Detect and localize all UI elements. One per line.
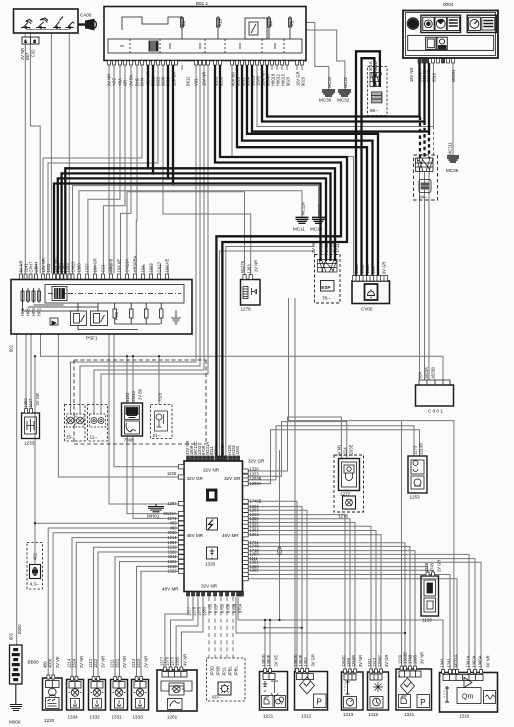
svg-text:HRSPBA: HRSPBA <box>133 255 138 272</box>
svg-text:8705: 8705 <box>208 603 213 613</box>
svg-text:16V VE: 16V VE <box>165 258 170 272</box>
svg-text:452: 452 <box>33 552 38 560</box>
svg-text:802: 802 <box>9 344 14 352</box>
svg-text:V31: V31 <box>194 78 199 86</box>
svg-text:1320: 1320 <box>205 562 216 567</box>
svg-text:9004: 9004 <box>214 445 219 455</box>
svg-text:1263: 1263 <box>247 264 252 274</box>
svg-text:1203A: 1203A <box>250 481 262 486</box>
svg-text:8704: 8704 <box>238 603 243 613</box>
svg-text:2V BA: 2V BA <box>129 74 134 86</box>
svg-text:16A: 16A <box>418 371 423 379</box>
svg-text:1745: 1745 <box>430 562 435 572</box>
svg-text:MC10: MC10 <box>310 227 323 232</box>
svg-text:1127: 1127 <box>28 398 33 408</box>
svg-text:MC11: MC11 <box>293 227 305 232</box>
svg-text:1224: 1224 <box>343 447 348 457</box>
svg-text:1115: 1115 <box>369 712 379 717</box>
svg-text:2V NR: 2V NR <box>144 656 149 668</box>
svg-text:MC10: MC10 <box>317 204 322 216</box>
svg-text:F15: F15 <box>218 18 223 26</box>
svg-text:C13: C13 <box>101 264 106 272</box>
svg-text:84--: 84-- <box>419 195 428 200</box>
svg-text:9020: 9020 <box>286 76 291 86</box>
svg-text:HF2: HF2 <box>37 308 42 316</box>
svg-text:0004: 0004 <box>443 2 454 7</box>
svg-text:1365: 1365 <box>250 568 260 573</box>
svg-text:3V GR: 3V GR <box>384 655 389 667</box>
svg-text:JPBL: JPBL <box>234 665 239 676</box>
svg-text:8706: 8706 <box>226 603 231 613</box>
svg-text:P: P <box>420 698 425 707</box>
svg-text:PTB: PTB <box>114 312 119 320</box>
svg-text:JP3D: JP3D <box>210 666 215 676</box>
svg-text:8708: 8708 <box>232 603 237 613</box>
svg-text:48V MR: 48V MR <box>187 533 204 538</box>
svg-text:1380: 1380 <box>77 263 82 273</box>
svg-text:1203E: 1203E <box>349 444 354 456</box>
svg-text:1324: 1324 <box>72 658 77 668</box>
svg-text:2V NR: 2V NR <box>101 656 106 668</box>
svg-text:M000: M000 <box>9 720 21 725</box>
svg-text:MC32: MC32 <box>343 76 348 88</box>
svg-text:1233: 1233 <box>24 441 35 446</box>
svg-text:18V NR: 18V NR <box>409 68 414 82</box>
svg-text:JPBL: JPBL <box>228 665 233 676</box>
svg-text:MH01: MH01 <box>147 514 160 519</box>
svg-text:+CC: +CC <box>112 78 117 86</box>
svg-text:5010: 5010 <box>432 72 437 82</box>
svg-text:MC11A: MC11A <box>301 202 306 216</box>
svg-text:CA13: CA13 <box>157 262 162 273</box>
svg-text:GR: GR <box>123 80 128 86</box>
svg-text:803: 803 <box>9 632 14 640</box>
svg-text:1741: 1741 <box>447 658 452 668</box>
svg-text:1T11: 1T11 <box>335 243 340 253</box>
svg-text:5008: 5008 <box>166 76 171 86</box>
svg-text:2V NR: 2V NR <box>79 656 84 668</box>
svg-text:1322: 1322 <box>93 658 98 668</box>
svg-text:1310: 1310 <box>459 714 470 719</box>
svg-text:M131A: M131A <box>454 654 459 667</box>
svg-text:UBH4: UBH4 <box>34 261 39 273</box>
svg-text:P: P <box>317 698 322 707</box>
svg-text:1313: 1313 <box>343 712 354 717</box>
svg-text:1380: 1380 <box>202 606 207 616</box>
svg-text:1321: 1321 <box>404 712 415 717</box>
svg-text:2V NR: 2V NR <box>122 656 127 668</box>
svg-text:1277: 1277 <box>340 492 351 497</box>
svg-text:2V NR: 2V NR <box>311 241 316 253</box>
svg-text:2V VE: 2V VE <box>55 656 60 668</box>
svg-text:ESP: ESP <box>321 285 330 290</box>
svg-text:32V GR: 32V GR <box>248 459 265 464</box>
svg-text:M0004: M0004 <box>451 69 456 82</box>
svg-text:78--: 78-- <box>322 296 331 301</box>
svg-text:32V NR: 32V NR <box>203 468 220 473</box>
svg-text:1380: 1380 <box>175 656 180 666</box>
svg-text:1203: 1203 <box>65 263 70 273</box>
svg-text:48V MR: 48V MR <box>222 533 239 538</box>
svg-text:1603: 1603 <box>149 263 154 273</box>
svg-text:MC30: MC30 <box>327 76 332 88</box>
svg-text:1611: 1611 <box>360 264 365 274</box>
svg-text:B67: B67 <box>25 52 30 60</box>
svg-text:CA00: CA00 <box>80 13 92 18</box>
svg-text:4000: 4000 <box>48 658 53 668</box>
svg-text:1221: 1221 <box>263 714 274 719</box>
svg-text:1334: 1334 <box>68 715 79 720</box>
svg-text:C00: C00 <box>31 49 36 57</box>
svg-text:8702: 8702 <box>220 603 225 613</box>
svg-text:CV00: CV00 <box>361 307 373 312</box>
svg-text:21--: 21-- <box>153 433 162 438</box>
svg-text:7320: 7320 <box>158 392 163 402</box>
svg-text:1603B: 1603B <box>431 367 436 379</box>
svg-text:3V NR: 3V NR <box>420 652 425 664</box>
svg-text:6V NR: 6V NR <box>486 655 491 667</box>
svg-text:1380E: 1380E <box>266 654 271 666</box>
svg-text:F5: F5 <box>290 20 295 26</box>
svg-text:4.3--: 4.3-- <box>30 582 40 587</box>
svg-text:16A: 16A <box>141 265 146 273</box>
svg-text:JP0B: JP0B <box>216 666 221 676</box>
svg-text:1356C: 1356C <box>377 655 382 667</box>
svg-text:1323: 1323 <box>167 569 177 574</box>
svg-text:1387: 1387 <box>167 501 177 506</box>
svg-text:9025: 9025 <box>301 76 306 86</box>
svg-text:2V M1: 2V M1 <box>337 444 342 457</box>
svg-text:1011: 1011 <box>46 263 51 273</box>
svg-text:2V NR: 2V NR <box>254 260 259 272</box>
svg-text:1610: 1610 <box>365 264 370 274</box>
svg-text:CM13: CM13 <box>131 390 136 402</box>
svg-text:1220: 1220 <box>44 718 55 723</box>
svg-text:1603A: 1603A <box>424 367 429 379</box>
svg-text:4V NR: 4V NR <box>183 654 188 666</box>
svg-text:3V NR: 3V NR <box>358 655 363 667</box>
svg-text:11--: 11-- <box>90 435 98 440</box>
svg-text:2T15: 2T15 <box>330 242 335 252</box>
svg-text:1262: 1262 <box>235 445 240 455</box>
svg-text:PSF1: PSF1 <box>86 336 98 341</box>
svg-text:BB00: BB00 <box>28 660 40 665</box>
svg-text:2V GR: 2V GR <box>35 393 40 405</box>
svg-text:HF4: HF4 <box>31 308 36 316</box>
svg-text:B612: B612 <box>186 76 191 86</box>
svg-text:1312: 1312 <box>301 714 312 719</box>
svg-text:301B: 301B <box>373 61 378 71</box>
svg-text:F4: F4 <box>269 20 274 26</box>
svg-text:B51 1: B51 1 <box>196 1 208 6</box>
svg-text:1361A: 1361A <box>466 655 471 667</box>
svg-text:M1276: M1276 <box>240 260 245 273</box>
svg-text:1235: 1235 <box>167 471 177 476</box>
svg-text:1270: 1270 <box>338 514 349 519</box>
svg-text:1748: 1748 <box>424 562 429 572</box>
svg-text:BH4: BH4 <box>140 77 145 86</box>
svg-text:MC30: MC30 <box>319 98 332 103</box>
svg-text:1331: 1331 <box>112 715 123 720</box>
svg-text:1323: 1323 <box>136 658 141 668</box>
svg-text:2V VE: 2V VE <box>274 655 279 667</box>
svg-text:5T1B: 5T1B <box>319 242 324 252</box>
svg-text:F4: F4 <box>182 20 187 26</box>
svg-text:1337: 1337 <box>85 263 90 273</box>
svg-text:16A GR: 16A GR <box>93 258 98 272</box>
svg-text:1T12: 1T12 <box>324 242 329 252</box>
svg-text:JP1L: JP1L <box>222 666 227 676</box>
svg-text:32V NR: 32V NR <box>201 584 218 589</box>
svg-text:1321: 1321 <box>115 658 120 668</box>
svg-text:MC211: MC211 <box>448 141 453 155</box>
svg-text:2V GR: 2V GR <box>437 560 442 572</box>
svg-text:1356B: 1356B <box>351 655 356 667</box>
svg-text:32V GR: 32V GR <box>224 476 241 481</box>
svg-text:HF1: HF1 <box>20 308 25 316</box>
svg-text:9206: 9206 <box>219 76 224 86</box>
svg-text:1360A: 1360A <box>472 655 477 667</box>
svg-text:15V GR: 15V GR <box>172 71 177 86</box>
svg-text:HF5: HF5 <box>26 308 31 316</box>
svg-text:1313B: 1313B <box>419 443 424 455</box>
svg-text:C 0 0 1: C 0 0 1 <box>428 409 443 414</box>
svg-text:66--: 66-- <box>370 108 379 113</box>
svg-text:1341: 1341 <box>440 658 445 668</box>
svg-text:1273: 1273 <box>413 445 418 455</box>
svg-text:1276: 1276 <box>241 307 252 312</box>
svg-text:HRSP8: HRSP8 <box>109 258 114 272</box>
svg-text:6D--: 6D-- <box>212 695 221 700</box>
svg-text:1365A: 1365A <box>478 655 483 667</box>
svg-text:CM13A: CM13A <box>125 259 130 273</box>
svg-text:1332: 1332 <box>90 715 101 720</box>
svg-text:5183: 5183 <box>125 392 130 402</box>
svg-text:7308: 7308 <box>124 438 135 443</box>
svg-text:2V B5: 2V B5 <box>138 388 143 400</box>
svg-text:1253: 1253 <box>410 495 421 500</box>
svg-text:1612: 1612 <box>354 264 359 274</box>
svg-text:9305A: 9305A <box>220 443 225 455</box>
svg-text:B000: B000 <box>17 624 22 634</box>
svg-text:32V GR: 32V GR <box>187 476 204 481</box>
svg-text:1261: 1261 <box>167 715 178 720</box>
svg-text:1341: 1341 <box>250 532 260 537</box>
svg-text:1333: 1333 <box>133 715 144 720</box>
svg-text:CM13: CM13 <box>71 261 76 273</box>
svg-text:A: A <box>398 674 401 679</box>
svg-text:8707: 8707 <box>214 603 219 613</box>
svg-text:16A VE: 16A VE <box>117 259 122 273</box>
svg-text:Qm: Qm <box>462 694 473 701</box>
svg-text:MC35: MC35 <box>446 168 459 173</box>
svg-text:48V MR: 48V MR <box>162 587 179 592</box>
svg-text:10V NR: 10V NR <box>202 72 207 86</box>
svg-text:160: 160 <box>371 266 376 274</box>
svg-text:6V GR: 6V GR <box>382 262 387 274</box>
svg-text:15--: 15-- <box>66 435 75 440</box>
svg-text:1120: 1120 <box>422 618 432 623</box>
svg-text:5004C: 5004C <box>426 70 431 82</box>
svg-text:MC32: MC32 <box>337 98 350 103</box>
svg-text:3V GR: 3V GR <box>311 654 316 666</box>
svg-text:1746B: 1746B <box>250 499 262 504</box>
svg-text:1385: 1385 <box>413 654 418 664</box>
svg-text:1353: 1353 <box>303 657 308 667</box>
